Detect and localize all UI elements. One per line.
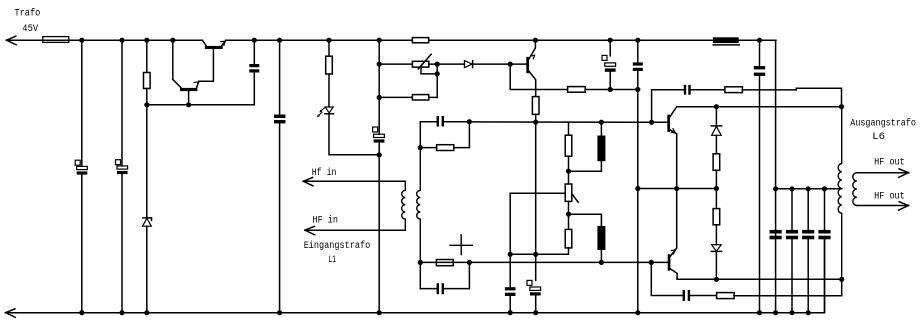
wire emitter line y188.5 (638, 188, 717, 190)
resistor R16 (717, 293, 735, 299)
node tap x792 (789, 186, 794, 191)
capacitor C18 (274, 115, 285, 124)
svg-text:L1: L1 (328, 255, 336, 266)
capacitor C7 (437, 116, 444, 127)
resistor R10 (565, 135, 572, 156)
transistor Q4 base bar (667, 115, 670, 132)
wire Q1 base (199, 49, 214, 81)
wire HF out top (857, 172, 909, 174)
transistor Q3 emitter lead (529, 71, 536, 96)
wire Q5 collector line y279.3 (677, 278, 842, 280)
capacitor C1 electrolytic (75, 160, 87, 174)
wire x379 upper (378, 40, 380, 134)
node x420 y262.4 (418, 260, 423, 265)
diode D3 (464, 61, 472, 68)
arrow to transformer top (6, 36, 16, 45)
node x469 y262.4 (467, 260, 472, 265)
transistor Q2 collector lead (173, 79, 181, 88)
wire x329 top (328, 40, 330, 56)
wire x792 lower (791, 239, 793, 312)
capacitor C14 (770, 230, 782, 239)
wire R15 to D5 (715, 225, 717, 245)
node rail x254 (252, 38, 257, 43)
wire secondary top (420, 122, 436, 148)
wire x254 top (253, 40, 255, 64)
node rail x122 (119, 38, 124, 43)
node x677 y188.5 (674, 186, 679, 191)
node x568 y214.2 (566, 212, 571, 217)
node gnd x280 (277, 310, 282, 315)
transistor Q3 emitter arrow (531, 55, 535, 59)
capacitor C15 (786, 230, 798, 239)
node rail x610 (608, 38, 613, 43)
wire cap row lower (420, 262, 469, 288)
wire top rail right of Q1 (226, 39, 776, 41)
wire y97 left (379, 96, 412, 98)
transistor Q1 emitter arrow (221, 41, 226, 45)
resistor R4 (412, 95, 428, 100)
transistor Q2 emitter arrow (194, 82, 199, 86)
resistor R15 (713, 209, 720, 225)
svg-text:L6: L6 (872, 132, 885, 143)
node x716 y188.5 (714, 186, 719, 191)
node x510 y254.3 (508, 252, 513, 257)
wire D4 to R14 (715, 135, 717, 154)
capacitor C12 (683, 290, 691, 301)
node x568 y171.2 (566, 169, 571, 174)
inductor L3 choke (597, 226, 605, 250)
wire R14 to node (715, 170, 717, 188)
node gnd x638 (635, 310, 640, 315)
node x716 y106.7 (714, 104, 719, 109)
node x535 y254.3 (533, 252, 538, 257)
svg-text:HF out: HF out (874, 192, 905, 203)
node x601 y122 (599, 120, 604, 125)
wire x329 mid (328, 74, 330, 107)
wire x759.5 top (759, 40, 761, 66)
resistor R14 (713, 154, 720, 171)
wire x82 lower (81, 175, 83, 313)
wire x824.5 column (824, 189, 826, 230)
wire Q4 feedback tap (652, 90, 684, 123)
node Q5 base (649, 260, 654, 265)
wire base line y122 (469, 121, 667, 123)
node x420 y147.6 (418, 145, 423, 150)
capacitor C5 electrolytic (602, 55, 616, 71)
wire wiper line (510, 193, 565, 287)
arrow HF in top (303, 178, 313, 186)
node x379 LED join (377, 152, 382, 157)
wire Q5 feedback tap (651, 262, 682, 295)
node x437 y74 (435, 71, 440, 76)
arrow to transformer bottom (6, 309, 16, 317)
inductor L1 primary (402, 181, 406, 230)
capacitor C2 electrolytic (116, 160, 128, 174)
node Q3 base (508, 62, 513, 67)
wire C12 to R16 (690, 295, 717, 297)
wire Q2 base down (188, 91, 190, 105)
wire bottom rail (6, 239, 825, 312)
node gnd x792 (789, 310, 794, 315)
wire y64 right (473, 63, 511, 65)
transistor Q3 base bar (526, 57, 529, 73)
fuse F1 (43, 37, 69, 43)
wire x638 long (637, 71, 639, 313)
wire x147 mid (146, 89, 148, 218)
wire x792 column (791, 189, 793, 230)
node x601 y262.4 (599, 260, 604, 265)
wire rail corner to B+ (775, 40, 777, 313)
capacitor C4 electrolytic (373, 127, 385, 143)
wire cap to node (444, 121, 469, 123)
wire x254 bottom (253, 73, 255, 105)
wire x379 lower (378, 143, 380, 313)
wire D5 down (715, 251, 717, 279)
node rail x147 (144, 38, 149, 43)
svg-text:Eingangstrafo: Eingangstrafo (304, 240, 371, 252)
wire x437 (436, 64, 438, 97)
node gnd x759.5 (757, 310, 762, 315)
plus sign (450, 235, 472, 255)
wire y89.5 right (585, 89, 638, 91)
wire Q3 base (510, 63, 526, 65)
capacitor C13 (754, 66, 765, 76)
transistor Q4 emitter arrow (671, 129, 675, 133)
svg-text:Ausgangstrafo: Ausgangstrafo (850, 117, 916, 129)
svg-text:45V: 45V (22, 24, 38, 35)
arrow HF out bottom (899, 202, 909, 210)
trimmer resistor R3 (412, 54, 431, 69)
node x535 y122 (533, 120, 538, 125)
node rail x759.5 (757, 38, 762, 43)
wire Q4 emitter down (676, 134, 678, 248)
resistor R1 (144, 73, 151, 89)
capacitor C16 (802, 230, 814, 239)
wire trimmer wiper stub (421, 67, 437, 74)
node gnd x122 (119, 310, 124, 315)
node rail x280 (277, 38, 282, 43)
node gnd x510 (508, 310, 513, 315)
transistor Q4 emitter lead (670, 130, 677, 134)
node x469 y121.7 (467, 119, 472, 124)
node x841 y106.7 (839, 104, 844, 109)
capacitor C9 (505, 287, 516, 296)
wire x280 lower (279, 123, 281, 312)
wire x638 top (637, 40, 639, 62)
transistor Q1 base bar (205, 46, 223, 49)
wire x122 lower (121, 174, 123, 313)
wire x510 bottom (509, 296, 511, 313)
wire C11 to R13 (691, 89, 725, 91)
capacitor C11 (684, 85, 691, 95)
node gnd x82 (79, 310, 84, 315)
capacitor C8 (437, 283, 444, 294)
node x379 y64 (377, 62, 382, 67)
node rail x379 (377, 38, 382, 43)
wire top rail left (6, 39, 202, 41)
wire y262.4 line (420, 261, 667, 263)
arrow HF out top (899, 169, 909, 177)
wire x420 down (419, 262, 421, 288)
capacitor C6 (633, 62, 643, 71)
resistor R5 on rail (412, 38, 428, 43)
wire x147 top (146, 40, 148, 72)
node gnd x147 (144, 310, 149, 315)
wire chain top (715, 107, 717, 126)
resistor R9 (436, 260, 453, 266)
trimmer resistor R11 (565, 184, 578, 202)
wire x610 bottom (609, 72, 611, 90)
transistor Q2 emitter lead (197, 82, 199, 88)
wire x82 upper (81, 40, 83, 166)
wire Q3 base down (510, 64, 567, 89)
diode D4 (711, 126, 721, 135)
inductor L1 secondary (417, 148, 421, 263)
wire choke1 bottom (569, 161, 602, 171)
zener diode D1 (143, 218, 152, 226)
transistor Q3 collector lead (529, 40, 535, 59)
inductor L2 choke (597, 136, 605, 162)
capacitor C3 (249, 64, 259, 73)
wire x824.5 lower (824, 239, 826, 312)
node rail x535 (533, 38, 538, 43)
wire HF out bottom (857, 205, 909, 207)
wire choke2 bottom (600, 250, 602, 262)
resistor R6 (532, 97, 539, 115)
node Q4 base (649, 120, 654, 125)
wire feedback to output bottom (734, 279, 842, 295)
wire chain top (568, 122, 570, 135)
svg-text:Hf in: Hf in (312, 167, 337, 179)
wire trimmer bottom (568, 201, 570, 229)
wire x147 bottom (146, 226, 148, 313)
node tap x808 (806, 186, 811, 191)
svg-text:Trafo: Trafo (14, 8, 40, 20)
inductor L6 primary (838, 107, 842, 280)
node gnd x775.6 (773, 310, 778, 315)
node rail x638 (635, 38, 640, 43)
wire choke1 top (600, 122, 602, 135)
wire control node y105 (147, 104, 255, 106)
transistor Q5 emitter lead lower (670, 269, 677, 279)
wire R8 right (454, 122, 470, 148)
wire center tap line (776, 188, 842, 190)
wire x280 upper (279, 40, 281, 114)
wire y64 left (379, 63, 412, 65)
transistor Q5 base bar (668, 254, 671, 270)
transistor Q5 collector lead upper (670, 248, 676, 256)
wire x535 long (535, 114, 537, 280)
node x716 y279.3 (714, 277, 719, 282)
wire x610 top (609, 40, 611, 56)
wire tap y214 (569, 214, 602, 226)
node x638 y188.5 (635, 186, 640, 191)
wire y97 right (429, 96, 437, 98)
wire x759.5 long (759, 76, 761, 313)
resistor R13 (725, 87, 743, 93)
wire R8 left (420, 147, 436, 149)
resistor R2 (326, 56, 333, 74)
node tap x775.6 (773, 186, 778, 191)
inductor L6 secondary (853, 173, 857, 206)
transistor Q1 collector lead (203, 41, 207, 46)
node x379 y97 (377, 95, 382, 100)
transistor Q5 emitter arrow (671, 250, 675, 254)
inductor L4 choke on rail (713, 37, 739, 45)
wire x535 bottom (535, 296, 537, 313)
wire x122 upper (121, 40, 123, 166)
node x437 y64 (435, 62, 440, 67)
node x147 y105 (144, 102, 149, 107)
arrow HF in bottom (305, 226, 315, 234)
node x841 y279.3 (839, 277, 844, 282)
node gnd x535 (533, 310, 538, 315)
wire collector line y106.7 (677, 106, 842, 108)
node rail x82 (79, 38, 84, 43)
transistor Q1 emitter lead (221, 41, 225, 46)
wire x329 bottom (329, 114, 379, 155)
transistor Q2 base bar (180, 88, 197, 91)
node rail x172.8 (170, 38, 175, 43)
node tap x824.5 (822, 186, 827, 191)
wire x808 column (807, 189, 809, 230)
wire HF in top lead (303, 180, 405, 182)
wire Q2 collector (172, 40, 174, 79)
resistor R7 (568, 87, 586, 93)
wire node to R15 (715, 189, 717, 209)
wire R10 bottom (568, 156, 570, 183)
svg-text:HF out: HF out (874, 157, 905, 168)
node gnd x808 (806, 310, 811, 315)
node Q2 base (186, 102, 191, 107)
node gnd x379 (377, 310, 382, 315)
resistor R12 (565, 229, 572, 248)
resistor R8 (437, 145, 454, 151)
wire y64 mid (429, 63, 465, 65)
diode D5 (711, 245, 721, 252)
node x610 y89.5 (608, 87, 613, 92)
LED D2 (325, 107, 334, 114)
wire feedback to output top (742, 88, 841, 107)
node x638 y89.5 (635, 87, 640, 92)
LED arrows (317, 108, 324, 117)
svg-text:HF in: HF in (313, 214, 339, 226)
node rail x329 (326, 38, 331, 43)
transistor Q4 collector lead (670, 107, 677, 117)
wire chain bottom (510, 248, 568, 254)
wire HF in bottom lead (305, 229, 405, 231)
capacitor C10 electrolytic (527, 280, 541, 295)
wire x808 lower (807, 239, 809, 312)
capacitor C17 (818, 230, 830, 239)
